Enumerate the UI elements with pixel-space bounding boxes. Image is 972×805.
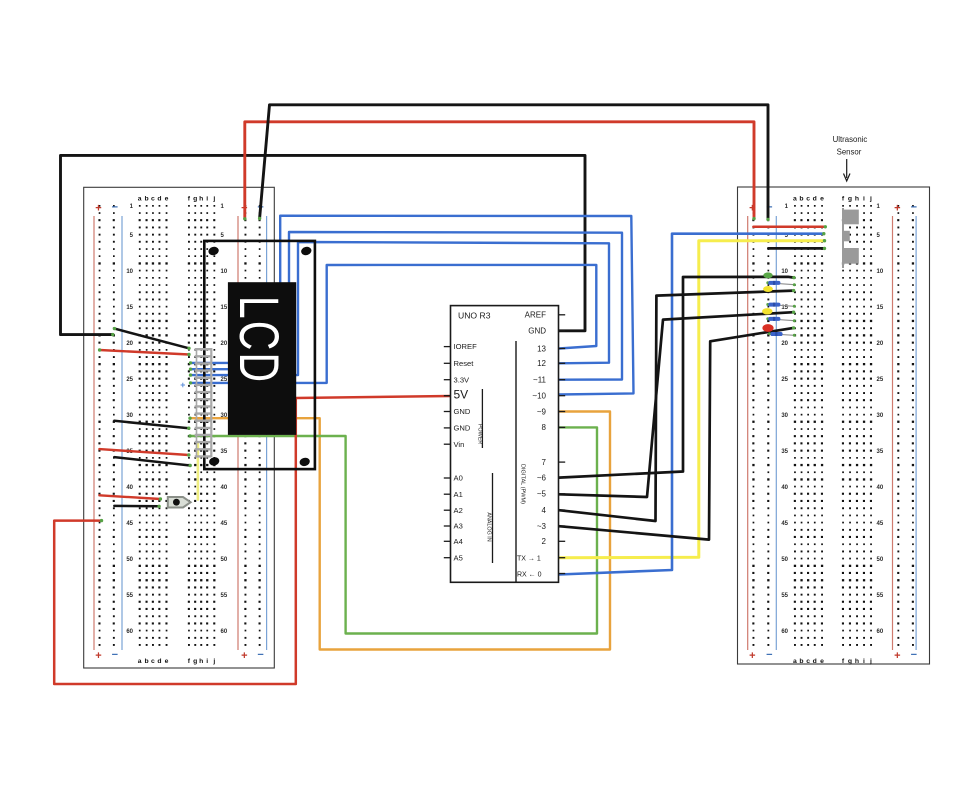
svg-text:25: 25 <box>877 377 884 383</box>
wire black jumper left rail to LCD pin row 20 <box>115 329 190 349</box>
svg-text:ANALOG IN: ANALOG IN <box>486 512 492 541</box>
wire black Arduino pin 5 to right breadboard yellow LED row <box>559 312 794 497</box>
svg-text:Ultrasonic: Ultrasonic <box>833 135 868 144</box>
wire red jumper left rail to LCD pin row 35 <box>99 449 188 455</box>
LED yellow 2 <box>762 308 772 314</box>
svg-text:30: 30 <box>126 413 133 419</box>
wire black Arduino pin 6 to right breadboard green LED row <box>559 277 794 478</box>
svg-text:UNO R3: UNO R3 <box>458 311 491 321</box>
svg-text:j: j <box>212 196 215 203</box>
svg-text:+: + <box>95 203 101 215</box>
svg-text:2: 2 <box>542 537 547 546</box>
wire black jumper left rail to LCD pin row 31 <box>114 421 189 428</box>
svg-text:50: 50 <box>877 557 884 563</box>
svg-text:Vin: Vin <box>454 440 465 449</box>
left breadboard dot grid <box>98 205 260 646</box>
svg-text:a: a <box>138 658 142 665</box>
right breadboard column letters <box>793 196 872 666</box>
svg-text:55: 55 <box>781 593 788 599</box>
svg-text:45: 45 <box>781 521 788 527</box>
svg-text:j: j <box>869 658 872 665</box>
LCD screw hole bottom-right <box>299 457 311 468</box>
svg-text:25: 25 <box>781 377 788 383</box>
svg-text:j: j <box>869 196 872 203</box>
svg-text:~9: ~9 <box>537 407 547 416</box>
svg-text:12: 12 <box>537 359 546 368</box>
svg-text:AREF: AREF <box>525 311 546 320</box>
svg-text:DIGITAL (PWM): DIGITAL (PWM) <box>520 464 526 504</box>
wire red jumper left rail to potentiometer <box>99 495 160 499</box>
ultrasonic sensor pins <box>842 208 859 268</box>
LCD screen <box>228 282 297 435</box>
svg-text:GND: GND <box>454 424 471 433</box>
svg-text:A0: A0 <box>454 474 463 483</box>
svg-text:−: − <box>112 649 118 661</box>
wire black jumper right breadboard negative rail to row 6 <box>768 247 824 250</box>
svg-text:a: a <box>793 196 797 203</box>
node mark <box>181 383 185 387</box>
svg-text:35: 35 <box>877 449 884 455</box>
svg-text:40: 40 <box>221 485 228 491</box>
svg-text:−: − <box>911 649 917 661</box>
svg-text:25: 25 <box>126 377 133 383</box>
svg-text:10: 10 <box>877 269 884 275</box>
svg-text:13: 13 <box>537 344 546 353</box>
svg-text:30: 30 <box>781 413 788 419</box>
svg-text:20: 20 <box>877 341 884 347</box>
Arduino digital label <box>520 464 526 504</box>
wire black jumper left rail to row 37 <box>114 457 190 465</box>
svg-text:g: g <box>848 658 852 665</box>
svg-text:GND: GND <box>528 327 546 336</box>
svg-text:60: 60 <box>877 629 884 635</box>
LED green <box>763 272 772 278</box>
svg-text:A3: A3 <box>454 522 463 531</box>
svg-text:~6: ~6 <box>537 473 547 482</box>
svg-text:c: c <box>806 658 810 665</box>
svg-text:Sensor: Sensor <box>837 148 862 157</box>
Arduino right pin labels <box>517 311 547 579</box>
left breadboard column letters <box>138 196 216 666</box>
wire blue Arduino pin 12 to LCD <box>191 242 610 375</box>
svg-text:40: 40 <box>781 485 788 491</box>
svg-text:60: 60 <box>221 629 228 635</box>
svg-text:45: 45 <box>221 521 228 527</box>
svg-text:e: e <box>820 196 824 203</box>
svg-text:IOREF: IOREF <box>454 342 478 351</box>
svg-text:RX ← 0: RX ← 0 <box>517 572 542 579</box>
ultrasonic sensor label <box>833 135 868 181</box>
svg-text:A4: A4 <box>454 537 463 546</box>
svg-text:40: 40 <box>126 485 133 491</box>
svg-text:15: 15 <box>221 305 228 311</box>
svg-text:10: 10 <box>221 269 228 275</box>
svg-text:GND: GND <box>454 407 471 416</box>
svg-text:10: 10 <box>126 269 133 275</box>
svg-text:Reset: Reset <box>454 359 475 368</box>
left breadboard power rail lines <box>94 216 267 650</box>
svg-text:b: b <box>799 196 803 203</box>
resistor R4 <box>768 332 796 337</box>
wire green Arduino pin 8 to LCD <box>190 427 597 633</box>
svg-text:a: a <box>138 196 142 203</box>
LCD screw hole top-left <box>208 246 220 257</box>
connection nodes right breadboard <box>752 217 827 330</box>
svg-text:A1: A1 <box>454 490 463 499</box>
LED yellow 1 <box>763 286 773 292</box>
svg-text:35: 35 <box>221 449 228 455</box>
svg-text:~11: ~11 <box>533 376 547 385</box>
svg-text:45: 45 <box>126 521 133 527</box>
svg-text:5V: 5V <box>454 387 469 401</box>
potentiometer <box>168 497 191 508</box>
svg-text:20: 20 <box>221 341 228 347</box>
svg-text:g: g <box>193 658 197 665</box>
svg-text:55: 55 <box>126 593 133 599</box>
svg-text:50: 50 <box>781 557 788 563</box>
Arduino left pin stubs <box>444 347 451 558</box>
LCD module PCB outline <box>204 241 315 469</box>
svg-text:e: e <box>820 658 824 665</box>
svg-text:+: + <box>241 650 247 662</box>
LCD screw hole bottom-left <box>208 456 220 467</box>
Arduino power bracket <box>477 389 483 448</box>
svg-text:30: 30 <box>877 413 884 419</box>
svg-text:d: d <box>157 658 161 665</box>
svg-text:−: − <box>911 202 917 214</box>
svg-text:−: − <box>766 649 772 661</box>
svg-text:+: + <box>894 203 900 215</box>
wire blue Arduino RX pin 0 to right breadboard row 4 <box>559 234 824 575</box>
svg-text:55: 55 <box>877 593 884 599</box>
resistor R2 <box>766 303 796 308</box>
svg-text:c: c <box>151 658 155 665</box>
left breadboard rail labels <box>95 202 264 663</box>
svg-text:15: 15 <box>126 305 133 311</box>
svg-text:i: i <box>863 196 865 203</box>
wire black left breadboard negative rail to right breadboard negative rail <box>260 105 768 220</box>
svg-text:h: h <box>855 196 859 203</box>
wire blue Arduino pin 11 to LCD <box>191 232 623 380</box>
svg-text:g: g <box>848 196 852 203</box>
svg-text:+: + <box>95 650 101 662</box>
wire blue Arduino pin 13 to LCD <box>191 265 597 383</box>
svg-text:50: 50 <box>126 557 133 563</box>
wire red jumper right breadboard positive rail to row 3 <box>753 226 825 229</box>
LCD screw hole top-right <box>300 246 312 257</box>
svg-text:60: 60 <box>781 629 788 635</box>
wire red Arduino 5V to left breadboard positive rail <box>54 396 450 684</box>
svg-text:A5: A5 <box>454 553 463 562</box>
svg-text:LCD: LCD <box>228 296 290 384</box>
svg-text:e: e <box>165 196 169 203</box>
svg-text:7: 7 <box>542 458 547 467</box>
svg-text:35: 35 <box>781 449 788 455</box>
right breadboard dot grid <box>752 205 914 646</box>
svg-text:i: i <box>863 658 865 665</box>
svg-text:20: 20 <box>781 341 788 347</box>
wire yellow potentiometer to LCD contrast <box>197 443 200 500</box>
svg-text:A2: A2 <box>454 506 463 515</box>
svg-text:i: i <box>206 658 208 665</box>
svg-text:55: 55 <box>221 593 228 599</box>
Arduino internal divider digital <box>515 341 517 582</box>
wire red left breadboard positive rail to right breadboard positive rail <box>245 122 754 219</box>
svg-text:b: b <box>145 196 149 203</box>
svg-text:15: 15 <box>877 305 884 311</box>
Arduino right pin stubs <box>559 315 566 574</box>
Arduino title <box>458 311 491 321</box>
svg-text:h: h <box>199 196 203 203</box>
svg-text:b: b <box>145 658 149 665</box>
wire orange Arduino pin 9 to LCD <box>190 412 610 650</box>
svg-text:j: j <box>212 658 215 665</box>
svg-text:d: d <box>813 196 817 203</box>
svg-text:d: d <box>813 658 817 665</box>
svg-text:~3: ~3 <box>537 522 547 531</box>
svg-text:−: − <box>257 649 263 661</box>
svg-text:e: e <box>165 658 169 665</box>
wire black Arduino pin 3 to right breadboard red LED row <box>559 328 794 540</box>
svg-text:g: g <box>193 196 197 203</box>
right breadboard outline <box>738 187 930 664</box>
svg-text:20: 20 <box>126 341 133 347</box>
svg-text:8: 8 <box>542 423 547 432</box>
svg-text:TX → 1: TX → 1 <box>517 556 541 563</box>
svg-text:c: c <box>151 196 155 203</box>
svg-text:4: 4 <box>542 506 547 515</box>
connection nodes left breadboard <box>98 217 261 523</box>
svg-text:+: + <box>749 650 755 662</box>
svg-text:h: h <box>855 658 859 665</box>
wire yellow Arduino TX pin 1 to right breadboard row 5 <box>559 241 825 558</box>
svg-text:~10: ~10 <box>532 392 546 401</box>
svg-text:d: d <box>157 196 161 203</box>
LCD header pins <box>195 348 212 457</box>
svg-text:+: + <box>894 650 900 662</box>
svg-text:−: − <box>112 202 118 214</box>
svg-text:50: 50 <box>221 557 228 563</box>
left breadboard outline <box>84 187 275 668</box>
Arduino left pin labels <box>454 342 478 562</box>
svg-text:~5: ~5 <box>537 490 547 499</box>
right breadboard power rail lines <box>748 216 916 650</box>
svg-text:h: h <box>199 658 203 665</box>
wire black jumper left rail to potentiometer <box>114 505 159 508</box>
svg-text:10: 10 <box>781 269 788 275</box>
wire black Arduino GND to left breadboard negative rail <box>61 155 586 334</box>
svg-text:POWER: POWER <box>477 424 483 444</box>
right breadboard row numbers <box>781 204 884 635</box>
Arduino analog bracket <box>486 473 493 563</box>
Arduino UNO R3 body <box>451 306 559 583</box>
svg-text:3.3V: 3.3V <box>454 375 471 384</box>
resistor R3 <box>766 317 796 322</box>
svg-text:40: 40 <box>877 485 884 491</box>
svg-text:a: a <box>793 658 797 665</box>
svg-text:45: 45 <box>877 521 884 527</box>
wire red jumper left rail to LCD pin row 21 <box>100 350 189 355</box>
wire blue Arduino pin 10 to LCD <box>191 216 634 395</box>
wire black Arduino pin 4 to right breadboard yellow LED row <box>559 291 794 521</box>
LED red <box>762 324 773 332</box>
svg-text:i: i <box>206 196 208 203</box>
svg-text:c: c <box>806 196 810 203</box>
resistor R1 <box>766 281 796 286</box>
svg-text:b: b <box>799 658 803 665</box>
left breadboard row numbers <box>126 204 228 635</box>
svg-text:60: 60 <box>126 629 133 635</box>
right breadboard rail labels <box>749 202 917 663</box>
